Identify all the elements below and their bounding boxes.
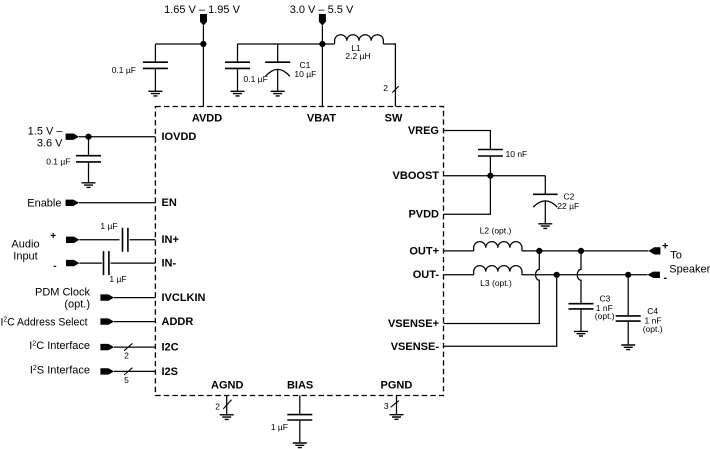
input flag IN+ (66, 237, 79, 243)
bus width label 2 (AGND) (215, 401, 220, 411)
net label I2C Address Select (1, 316, 88, 328)
node AVDD junction (200, 41, 206, 47)
wire VBOOST (444, 175, 546, 177)
node OUT+ C3 junction (578, 248, 584, 254)
svg-text:Input: Input (13, 251, 37, 263)
net label I2S Interface (30, 364, 90, 376)
net label Audio Input (11, 239, 39, 263)
svg-text:AGND: AGND (211, 380, 243, 392)
wire ADDR (114, 321, 155, 323)
svg-text:PDM Clock: PDM Clock (35, 286, 91, 298)
node VBOOST junction (487, 173, 493, 179)
value label C2 (564, 192, 575, 202)
bus width label 5 (I2S) (124, 375, 129, 385)
wire VBAT rail (238, 43, 335, 45)
capacitor 1uF (BIAS) (287, 415, 312, 443)
wire VREG (444, 131, 491, 149)
value label 22 uF (557, 201, 579, 211)
svg-text:1.5 V –: 1.5 V – (28, 126, 64, 138)
net label To Speaker (669, 250, 710, 276)
output flag speaker + (649, 247, 661, 254)
svg-text:1 µF: 1 µF (271, 422, 288, 432)
wire IN- right (111, 262, 156, 264)
bus slash PGND (391, 401, 399, 408)
inductor L3 (474, 266, 522, 275)
svg-text:10 nF: 10 nF (506, 149, 528, 159)
value label 1 nF (C4) (645, 315, 662, 325)
svg-text:2: 2 (383, 83, 388, 93)
pin label IVCLKIN (162, 292, 206, 304)
supply net label 1.65V-1.95V (164, 4, 240, 16)
input flag EN (66, 200, 79, 206)
pin label EN (162, 197, 177, 209)
ground (C2) (538, 224, 552, 229)
input flag IVCLKIN (100, 294, 114, 300)
svg-text:I2S: I2S (162, 366, 179, 378)
svg-text:VSENSE+: VSENSE+ (388, 318, 439, 330)
pin label VREG (408, 125, 439, 137)
capacitor 10nF (478, 150, 503, 176)
pin label BIAS (287, 380, 313, 392)
value label 0.1 uF (IOVDD) (46, 156, 70, 166)
pin label SW (385, 112, 403, 124)
pin label AVDD (192, 112, 222, 124)
bus slash I2S (124, 368, 132, 375)
value label 0.1 uF (VBAT) (244, 74, 268, 84)
wire AVDD rail (155, 43, 203, 45)
output flag speaker - (648, 272, 660, 278)
polarity label speaker plus (662, 240, 668, 252)
wire BIAS stub (299, 396, 301, 414)
wire IN- left (79, 262, 102, 264)
wire IN+ left (79, 239, 119, 241)
wire IVCLKIN (114, 297, 155, 299)
ground (IOVDD cap) (82, 183, 96, 188)
svg-text:PVDD: PVDD (408, 209, 439, 221)
input flag IN- (66, 260, 79, 266)
svg-text:0.1 µF: 0.1 µF (112, 65, 136, 75)
svg-text:IN+: IN+ (162, 234, 179, 246)
pin label I2S (162, 366, 179, 378)
supply flag AVDD (200, 14, 207, 26)
svg-text:VBAT: VBAT (307, 112, 336, 124)
value label C3 (600, 294, 611, 304)
svg-text:PGND: PGND (381, 380, 413, 392)
svg-text:1 µF: 1 µF (109, 274, 126, 284)
input flag I2C (100, 344, 114, 350)
ground (C3) (574, 331, 588, 336)
svg-text:1 µF: 1 µF (100, 221, 117, 231)
wire OUT+ right (522, 250, 649, 252)
svg-text:(opt.): (opt.) (64, 298, 90, 310)
wire OUT+ left (444, 250, 474, 252)
value label C4 (647, 306, 658, 316)
capacitor C4 1nF (616, 316, 641, 345)
pin label VSENSE- (391, 341, 440, 353)
wire PGND stub (396, 396, 398, 415)
supply net label 3.0V-5.5V (290, 4, 354, 16)
wire OUT- left (444, 274, 474, 276)
wire VSENSE+ with hop over OUT- (444, 251, 540, 324)
value label 2.2 uH (345, 51, 370, 61)
svg-text:Audio: Audio (11, 239, 39, 251)
node OUT+ VSENSE+ junction (536, 248, 542, 254)
wire PVDD (444, 176, 491, 215)
value label 1 uF (BIAS) (271, 422, 288, 432)
ground (PGND) (390, 415, 404, 420)
value label 1 uF (IN-) (109, 274, 126, 284)
pin label VBOOST (393, 170, 440, 182)
pin label VBAT (307, 112, 336, 124)
net label PDM Clock (opt.) (35, 286, 91, 310)
node VBAT junction (319, 41, 325, 47)
bus slash SW (392, 86, 398, 92)
svg-text:ADDR: ADDR (162, 316, 194, 328)
wire I2C (114, 346, 155, 348)
svg-text:OUT-: OUT- (413, 269, 440, 281)
svg-text:IN-: IN- (162, 258, 177, 270)
pin label OUT+ (409, 245, 439, 257)
svg-text:VBOOST: VBOOST (393, 170, 440, 182)
pin label PVDD (408, 209, 439, 221)
IC boundary U1 dashed box (155, 107, 443, 396)
svg-text:L3 (opt.): L3 (opt.) (480, 278, 512, 288)
svg-text:3.6 V: 3.6 V (37, 138, 63, 150)
svg-text:3: 3 (384, 401, 389, 411)
svg-text:2: 2 (215, 401, 220, 411)
svg-text:-: - (663, 272, 667, 284)
svg-text:(opt.): (opt.) (643, 324, 663, 334)
svg-text:I2C Interface: I2C Interface (29, 340, 90, 352)
bus width label 2 (SW) (383, 83, 388, 93)
svg-text:+: + (662, 240, 668, 252)
polarity label minus (53, 261, 56, 272)
capacitor 0.1uF (VBAT) (225, 44, 250, 91)
svg-text:I2C Address Select: I2C Address Select (1, 316, 88, 328)
ground (AGND) (220, 415, 234, 420)
bus width label 2 (I2C) (124, 351, 129, 361)
node OUT- C4 junction (625, 272, 631, 278)
svg-text:To: To (670, 250, 682, 262)
svg-text:10 µF: 10 µF (294, 69, 316, 79)
value label 0.1 uF (AVDD) (112, 65, 136, 75)
svg-text:IOVDD: IOVDD (162, 131, 197, 143)
wire C3 branch with hop over OUT- (577, 251, 581, 303)
svg-text:VREG: VREG (408, 125, 439, 137)
svg-text:Speaker: Speaker (669, 263, 710, 275)
capacitor 1uF (IN+) (123, 228, 128, 252)
value label L3 (opt.) (480, 278, 512, 288)
pin label VSENSE+ (388, 318, 439, 330)
ground (VBAT 0.1uF cap) (231, 91, 245, 96)
svg-text:5: 5 (124, 375, 129, 385)
value label 1 uF (IN+) (100, 221, 117, 231)
svg-text:OUT+: OUT+ (409, 245, 439, 257)
pin label AGND (211, 380, 243, 392)
svg-text:22 µF: 22 µF (557, 201, 579, 211)
svg-text:IVCLKIN: IVCLKIN (162, 292, 206, 304)
value label L2 (opt.) (480, 226, 512, 236)
node OUT- VSENSE- junction (554, 272, 560, 278)
pin label I2C (162, 342, 179, 354)
capacitor 0.1uF (AVDD) (143, 44, 168, 91)
capacitor C2 22uF polarized (533, 176, 558, 224)
value label opt (C4) (643, 324, 663, 334)
wire IN+ right (130, 239, 156, 241)
capacitor C3 1nF (569, 304, 594, 332)
wire AVDD vertical (202, 26, 204, 107)
supply flag VBAT (319, 14, 326, 26)
svg-text:+: + (50, 231, 56, 242)
capacitor 1uF (IN-) (104, 251, 109, 275)
ground (BIAS) (293, 443, 307, 448)
input flag ADDR (100, 318, 114, 324)
svg-text:I2C: I2C (162, 342, 179, 354)
svg-text:2.2 µH: 2.2 µH (345, 51, 370, 61)
svg-text:SW: SW (385, 112, 403, 124)
svg-text:0.1 µF: 0.1 µF (244, 74, 268, 84)
pin label IN- (162, 258, 177, 270)
pin label ADDR (162, 316, 194, 328)
svg-text:0.1 µF: 0.1 µF (46, 156, 70, 166)
inductor L1 (335, 35, 384, 44)
wire AGND stub (226, 396, 228, 415)
svg-text:(opt.): (opt.) (595, 311, 615, 321)
inductor L2 (474, 242, 522, 251)
svg-text:2: 2 (124, 351, 129, 361)
value label 10 uF (294, 69, 316, 79)
input flag I2S (100, 368, 114, 374)
wire I2S (114, 370, 155, 372)
bus width label 3 (PGND) (384, 401, 389, 411)
value label L1 (351, 43, 361, 53)
svg-text:VSENSE-: VSENSE- (391, 341, 440, 353)
value label C1 (300, 60, 311, 70)
svg-text:BIAS: BIAS (287, 380, 313, 392)
net label 1.5V-3.6V (28, 126, 64, 150)
pin label OUT- (413, 269, 440, 281)
wire C4 branch (627, 275, 629, 315)
pin label IN+ (162, 234, 179, 246)
wire IOVDD (79, 136, 155, 138)
wire EN (79, 202, 155, 204)
capacitor C1 10uF polarized (265, 44, 290, 91)
ground (C1) (271, 91, 285, 96)
pin label IOVDD (162, 131, 197, 143)
value label 1 nF (C3) (596, 303, 613, 313)
node IOVDD junction (85, 134, 91, 140)
wire VSENSE- (444, 275, 557, 347)
value label 10 nF (506, 149, 528, 159)
net label Enable (27, 197, 61, 209)
svg-text:Enable: Enable (27, 197, 61, 209)
wire SW (383, 44, 395, 107)
value label opt (C3) (595, 311, 615, 321)
svg-text:AVDD: AVDD (192, 112, 222, 124)
svg-text:-: - (53, 261, 56, 272)
input flag IOVDD (66, 134, 79, 140)
svg-text:I2S Interface: I2S Interface (30, 364, 90, 376)
ground (AVDD cap) (148, 91, 162, 96)
polarity label plus (50, 231, 56, 242)
net label I2C Interface (29, 340, 90, 352)
svg-text:L2 (opt.): L2 (opt.) (480, 226, 512, 236)
polarity label speaker minus (663, 272, 667, 284)
capacitor 0.1uF (IOVDD) (76, 137, 101, 183)
bus slash AGND (223, 400, 231, 409)
svg-text:EN: EN (162, 197, 177, 209)
bus slash I2C (124, 343, 132, 350)
pin label PGND (381, 380, 413, 392)
ground (C4) (621, 345, 635, 350)
wire VBAT vertical (321, 26, 323, 107)
wire OUT- right (522, 274, 648, 276)
